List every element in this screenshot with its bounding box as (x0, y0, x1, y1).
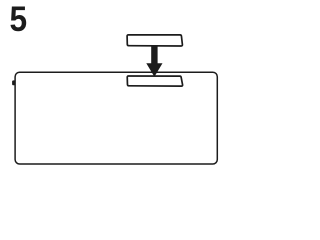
downward insertion arrow (146, 46, 162, 77)
svg-text:5: 5 (10, 0, 28, 39)
attachment slot on keyboard (127, 76, 182, 86)
palm rest bar (above, to be inserted) (127, 35, 182, 46)
power button bump on left edge (12, 80, 15, 85)
keyboard body outline (15, 72, 217, 164)
